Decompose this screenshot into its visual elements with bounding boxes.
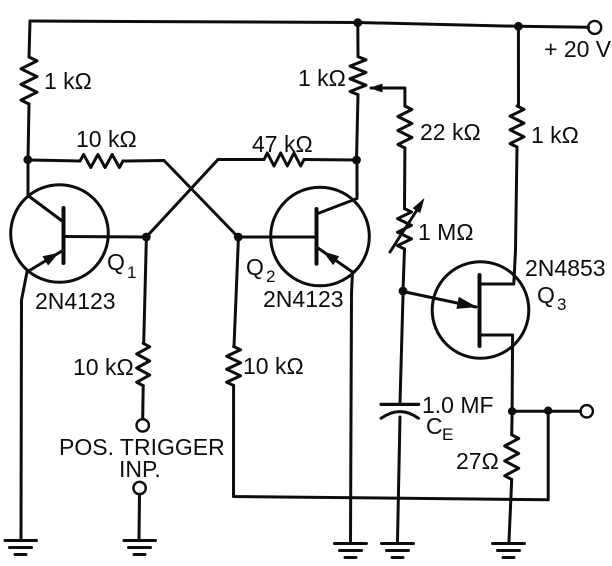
svg-text:2N4123: 2N4123 (35, 288, 116, 314)
svg-text:47 kΩ: 47 kΩ (252, 131, 313, 157)
label 10 kΩ (trigger) (73, 354, 134, 380)
label 1 kΩ (right) (531, 122, 579, 148)
svg-text:Q: Q (246, 254, 264, 280)
node C (Q2 base node) (234, 233, 243, 242)
node top rail right (514, 22, 523, 31)
ground (27 Ω) (493, 544, 525, 558)
wire node A down to Q1 collector (27, 160, 30, 196)
terminal output (581, 405, 593, 417)
label 2N4123 (Q2) (263, 286, 344, 312)
transistor Q1 emitter lead (27, 250, 64, 272)
transistor Q2 base bar (315, 209, 319, 264)
terminal trigger input top (137, 419, 149, 431)
wire crossover diagonal to node B (146, 160, 218, 238)
wire R5 to R6 (403, 148, 406, 209)
wire node F to R10 (510, 415, 513, 435)
wire output node to terminal (512, 410, 580, 413)
transistor Q2 base lead (238, 236, 316, 239)
wire Q1 emitter to ground (21, 272, 27, 539)
wire R7 to Q3 base-two (516, 147, 518, 250)
svg-text:1 kΩ: 1 kΩ (531, 122, 579, 148)
wire R9 down and bottom return wire (234, 386, 549, 500)
node top rail left (353, 18, 362, 27)
label 1.0 MF (422, 392, 494, 418)
resistor R10 27 Ω (505, 435, 519, 480)
svg-text:2N4853: 2N4853 (525, 255, 606, 281)
wire potentiometer wiper (371, 88, 405, 106)
wire R1 to node A (28, 104, 29, 160)
svg-text:27Ω: 27Ω (456, 448, 499, 474)
ground (capacitor) (382, 544, 414, 558)
transistor Q2 emitter arrow (323, 252, 339, 266)
wire diagonal corner to R3 (218, 158, 264, 161)
node F (output node left) (508, 407, 516, 415)
resistor R8 10 kΩ (trigger) (137, 343, 150, 385)
wire top supply rail (30, 21, 589, 27)
label 47 kΩ (252, 131, 313, 157)
label INP. (119, 456, 161, 482)
resistor R1 1 kΩ (left) (21, 57, 37, 104)
label CE (426, 413, 453, 444)
capacitor CE top plate (381, 403, 419, 406)
node G (output node right) (544, 407, 552, 415)
wire left branch top (29, 21, 30, 57)
resistor R7 1 kΩ (right) (510, 106, 524, 147)
svg-text:1 kΩ: 1 kΩ (44, 68, 92, 94)
label 2N4123 (Q1) (35, 288, 116, 314)
svg-text:1 MΩ: 1 MΩ (418, 219, 474, 245)
transistor Q2 circle (271, 187, 370, 286)
svg-text:1: 1 (127, 263, 136, 282)
wire R8 to trigger terminal (141, 386, 145, 419)
wire node B down to R8 (144, 241, 147, 343)
label Q2 (246, 254, 275, 286)
wire top rail to R7 (517, 26, 520, 106)
svg-text:2N4123: 2N4123 (263, 286, 344, 312)
wiper arrow (370, 84, 383, 93)
transistor Q3 base-one lead (480, 335, 513, 411)
transistor Q1 emitter arrow (43, 253, 60, 266)
wire R3 to node D (304, 158, 357, 162)
label 1 kΩ (potentiometer) (298, 65, 346, 91)
label 2N4853 (525, 255, 606, 281)
transistor Q3 base-two lead (480, 250, 516, 284)
wire R2 to crossover diagonal (123, 161, 238, 238)
transistor Q1 circle (11, 185, 109, 283)
svg-text:10 kΩ: 10 kΩ (243, 353, 304, 379)
label 27 Ω (456, 448, 499, 474)
transistor Q1 base bar (62, 208, 66, 263)
wire R4 to node D (357, 95, 359, 160)
transistor Q1 collector lead (28, 196, 64, 223)
wire node C down to R9 (234, 241, 238, 347)
terminal +20 V (588, 21, 601, 34)
node B (Q1 base node) (142, 233, 151, 242)
svg-text:INP.: INP. (119, 456, 161, 482)
svg-text:Q: Q (107, 249, 125, 275)
label 10 kΩ (cross-coupling) (76, 126, 137, 152)
transistor Q3 base bar (478, 275, 482, 346)
resistor R3 47 kΩ (264, 153, 304, 166)
transistor Q1 base lead (64, 235, 147, 239)
node E (timing node) (399, 287, 408, 296)
label 1 kΩ (left) (44, 68, 92, 94)
variable resistor arrow (1 MΩ) (390, 198, 425, 252)
wire trigger bottom terminal to ground (138, 494, 142, 539)
ground (Q2 emitter) (335, 544, 367, 558)
transistor Q3 circle (432, 262, 529, 359)
svg-text:10 kΩ: 10 kΩ (76, 126, 137, 152)
wire R10 to ground (509, 480, 512, 542)
label POS. TRIGGER (59, 434, 225, 460)
transistor Q2 collector lead (317, 160, 358, 214)
transistor Q3 emitter arrow (456, 297, 477, 309)
resistor R5 22 kΩ (398, 106, 412, 148)
node D (Q2 collector node) (352, 156, 361, 165)
svg-text:1 kΩ: 1 kΩ (298, 65, 346, 91)
capacitor CE bottom plate (381, 412, 419, 419)
label + 20 V (544, 36, 612, 62)
ground (trigger) (124, 541, 156, 555)
terminal trigger input bottom (133, 482, 145, 494)
wire node E to Q3 emitter (403, 292, 476, 308)
label Q3 (537, 282, 566, 314)
label 1 MΩ (418, 219, 474, 245)
transistor Q2 emitter lead (317, 247, 353, 272)
svg-text:Q: Q (537, 282, 555, 308)
ground (Q1 emitter) (5, 541, 37, 555)
resistor R2 10 kΩ (cross-coupling) (80, 155, 123, 168)
svg-text:22 kΩ: 22 kΩ (420, 119, 481, 145)
svg-text:+ 20 V: + 20 V (544, 36, 612, 62)
svg-text:E: E (442, 425, 453, 444)
svg-text:2: 2 (266, 267, 275, 286)
label 10 kΩ (Q2 base return) (243, 353, 304, 379)
svg-text:3: 3 (557, 295, 566, 314)
resistor R6 1 MΩ variable (398, 209, 412, 249)
wire Q2 emitter to ground (351, 272, 353, 541)
label Q1 (107, 249, 136, 282)
label 22 kΩ (420, 119, 481, 145)
node A (Q1 collector node) (23, 155, 32, 164)
wire node A to R2 (30, 160, 80, 161)
wire top rail to R4 (356, 23, 359, 57)
svg-text:10 kΩ: 10 kΩ (73, 354, 134, 380)
wire node E to capacitor (400, 296, 403, 404)
svg-text:C: C (426, 413, 443, 439)
wire R6 to node E (403, 249, 405, 291)
resistor R9 10 kΩ (Q2 base return) (227, 347, 241, 386)
resistor R4 1 kΩ potentiometer (350, 57, 366, 95)
wire capacitor to ground (398, 417, 401, 541)
